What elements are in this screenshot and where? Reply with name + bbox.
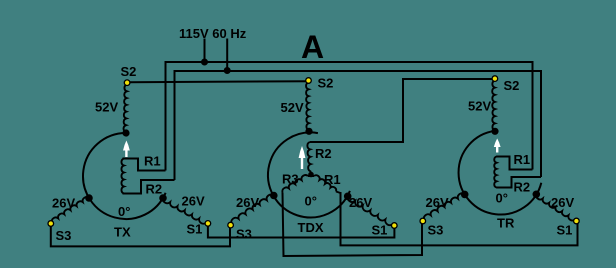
svg-text:S2: S2 [504,78,520,93]
svg-text:52V: 52V [468,98,491,113]
svg-text:0°: 0° [118,204,130,219]
svg-text:26V: 26V [426,195,449,210]
svg-text:26V: 26V [236,195,259,210]
svg-text:0°: 0° [496,191,508,206]
svg-text:S1: S1 [187,222,203,237]
svg-text:26V: 26V [182,194,205,209]
svg-text:52V: 52V [281,100,304,115]
svg-text:0°: 0° [305,194,317,209]
svg-text:115V 60 Hz: 115V 60 Hz [179,26,247,41]
svg-text:26V: 26V [551,195,574,210]
svg-text:A: A [301,29,324,65]
svg-text:R1: R1 [514,152,531,167]
svg-text:26V: 26V [52,196,75,211]
svg-text:R2: R2 [315,146,332,161]
svg-text:R2: R2 [146,182,163,197]
svg-text:TDX: TDX [298,220,324,235]
svg-text:S3: S3 [56,228,72,243]
svg-text:S2: S2 [121,64,137,79]
svg-text:R1: R1 [324,172,341,187]
svg-text:52V: 52V [95,99,118,114]
svg-text:S1: S1 [372,223,388,238]
svg-text:S1: S1 [557,223,573,238]
svg-text:TR: TR [497,216,515,231]
svg-text:R2: R2 [514,180,531,195]
svg-text:S3: S3 [428,223,444,238]
svg-text:R3: R3 [282,172,299,187]
svg-text:26V: 26V [349,195,372,210]
svg-text:S2: S2 [318,76,334,91]
svg-text:R1: R1 [144,154,161,169]
svg-text:TX: TX [114,225,131,240]
svg-text:S3: S3 [236,227,252,242]
